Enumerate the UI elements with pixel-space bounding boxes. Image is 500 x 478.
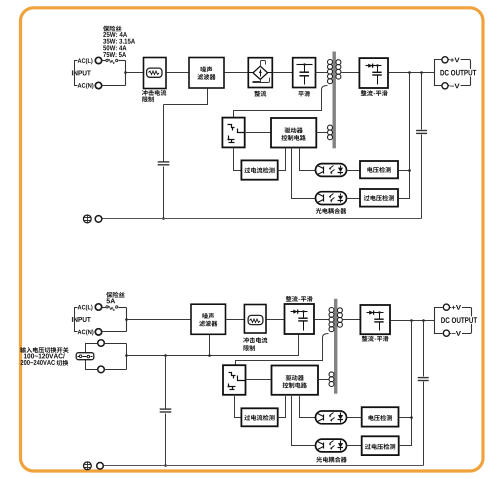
node output branch 1 (bottom) xyxy=(410,319,413,322)
protective earth symbol (bottom) xyxy=(84,462,92,470)
transformer T2 feedback winding (bottom) xyxy=(329,372,334,377)
voltage selector bracket xyxy=(86,344,98,370)
wire overcurrent detector to driver (bottom) xyxy=(278,395,286,418)
overvoltage detector box (bottom) xyxy=(362,436,399,455)
label 整流 (top) xyxy=(254,91,260,97)
noise filter box (top) xyxy=(189,58,224,89)
node detector junction (bottom) xyxy=(410,416,413,419)
terminal +V (top) xyxy=(442,57,448,63)
label +V (top) xyxy=(450,57,461,63)
wire optocoupler PC4 to overvoltage detector (bottom) xyxy=(347,445,362,447)
wire detector feedback vertical (bottom) xyxy=(399,321,412,446)
voltage selector switch terminals (bottom) xyxy=(98,340,105,347)
wire driver to optocoupler PC4 (bottom) xyxy=(292,395,316,446)
node input junction (bottom) xyxy=(125,318,128,321)
label DC OUTPUT (bottom) xyxy=(440,316,478,324)
node selector junction xyxy=(125,354,128,357)
label 输入电压切换开关 100~120VAC/200~240VAC切换 xyxy=(20,347,26,353)
node input junction (top) xyxy=(124,71,127,74)
rectifier-smoothing box (top) xyxy=(359,58,388,88)
wire rectifier-smoothing to DC output (top) xyxy=(389,72,435,74)
wire input junction vertical (top) xyxy=(125,61,127,86)
driver control circuit box (bottom) xyxy=(272,366,319,395)
label 整流·平滑 (top) xyxy=(361,90,367,96)
voltage selector slide switch symbol xyxy=(76,353,94,360)
label 电压检测 (bottom) xyxy=(368,415,373,421)
wire optocoupler PC1 to voltage detector (top) xyxy=(347,170,361,172)
wire transformer secondary to rectifier-smoothing (top) xyxy=(341,72,360,74)
driver control circuit box (top) xyxy=(271,118,316,148)
wire switch box to overcurrent detector (top) xyxy=(234,148,242,171)
label 冲击电流限制 (bottom) xyxy=(243,337,249,343)
wire junction to noise filter (bottom) xyxy=(127,319,192,321)
ground terminal (top) xyxy=(95,216,102,223)
label -V (top) xyxy=(450,83,461,89)
label AC(N) (top) xyxy=(78,83,82,87)
label -V (bottom) xyxy=(451,330,462,336)
optocoupler PC4 (bottom) xyxy=(316,439,347,452)
noise filter box (bottom) xyxy=(191,304,226,334)
wire noise filter tap to capacitor C2 (top) xyxy=(164,89,208,105)
label DC OUTPUT (top) xyxy=(439,69,477,77)
label 过电流检测 (bottom) xyxy=(244,415,250,421)
wire rectifier-smoothing 1 to transformer primary (bottom) xyxy=(315,319,330,321)
smoothing box (top) xyxy=(293,58,316,88)
wire optocoupler PC3 to voltage detector (bottom) xyxy=(347,417,362,419)
wire inrush limiter to rectifier-smoothing 1 (bottom) xyxy=(267,319,285,321)
optocoupler PC3 (bottom) xyxy=(316,411,347,424)
switching transistor symbols (bottom) xyxy=(229,373,236,376)
optocoupler PC1 (top) xyxy=(316,164,347,177)
wire inrush limiter to noise filter (top) xyxy=(167,72,190,74)
input bracket (top) xyxy=(75,61,78,86)
label INPUT (top) xyxy=(71,70,74,75)
transformer T1 core (top) xyxy=(333,52,336,149)
label 过电压检测 (top) xyxy=(364,195,370,201)
wire voltage detector to feedback vertical (top) xyxy=(399,170,410,172)
terminal +V (bottom) xyxy=(443,304,449,310)
node capacitor-bus junction (bottom) xyxy=(164,464,167,467)
wire switch box to overcurrent detector (bottom) xyxy=(235,395,242,418)
wire optocoupler PC2 to overvoltage detector (top) xyxy=(347,198,361,200)
inrush current limiter box (bottom) xyxy=(244,305,266,334)
wire driver to optocoupler PC1 (top) xyxy=(300,148,316,171)
wire overcurrent detector to driver (top) xyxy=(278,148,286,171)
wire output return with capacitor C3 (top) xyxy=(421,73,423,219)
label 过电流检测 (top) xyxy=(244,167,250,173)
wire driver to feedback winding (bottom) xyxy=(319,379,330,381)
wire detector feedback vertical (top) xyxy=(399,73,410,199)
rectifier-smoothing box 1 (bottom) xyxy=(285,304,315,334)
label 电压检测 (top) xyxy=(367,167,372,173)
terminal -V (bottom) xyxy=(443,330,449,336)
wire driver to feedback winding (top) xyxy=(317,132,328,134)
capacitor C2 to ground bus (top) xyxy=(163,105,165,219)
wire rectifier-smoothing 2 to DC output (bottom) xyxy=(391,320,435,322)
overcurrent detector box (bottom) xyxy=(241,408,277,426)
wire fuse to junction (top) xyxy=(119,60,126,62)
ground bus (top) xyxy=(102,218,422,220)
transformer T2 core (bottom) xyxy=(334,299,337,394)
capacitor C4 to ground bus (bottom) xyxy=(165,356,167,466)
wire selector mid-line to rectifier-smoothing 1 bottom xyxy=(127,335,299,356)
switching transistor box (bottom) xyxy=(223,365,246,395)
wire primary return to switching transistor (top) xyxy=(234,86,328,118)
wire driver to optocoupler PC2 (top) xyxy=(292,148,316,199)
wire voltage detector to feedback vertical (bottom) xyxy=(399,417,412,419)
overcurrent detector box (top) xyxy=(241,160,277,179)
transformer T2 primary winding (bottom) xyxy=(329,308,334,313)
ground bus (bottom) xyxy=(104,465,424,467)
wire output return with capacitor C5 (bottom) xyxy=(423,321,425,466)
node detector junction (top) xyxy=(408,169,411,172)
inrush current limiter box (top) xyxy=(144,58,167,89)
DC output terminal block (top) xyxy=(435,60,442,86)
label INPUT (bottom) xyxy=(71,317,74,322)
wire switching transistor to driver (top) xyxy=(245,132,272,134)
inrush limiter thermistor symbol (top) xyxy=(147,68,162,77)
DC output terminal block (bottom) xyxy=(435,308,443,334)
fuse F1 (top) xyxy=(102,60,106,62)
terminal AC(L) (top) xyxy=(95,57,101,63)
wire switching transistor to driver (bottom) xyxy=(246,379,272,381)
node output branch 2 (top) xyxy=(420,71,423,74)
wire smoothing to transformer primary (top) xyxy=(316,72,328,74)
wire transformer secondary to rectifier-smoothing 2 (bottom) xyxy=(343,319,361,321)
wire junction to inrush limiter (top) xyxy=(126,72,144,74)
label 整流·平滑 (bottom box 2) xyxy=(362,336,368,342)
node capacitor-bus junction (top) xyxy=(162,217,165,220)
switching transistor symbols (top) xyxy=(228,125,235,128)
wire fuse to junction (bottom) xyxy=(119,307,127,309)
node output branch 2 (bottom) xyxy=(422,319,425,322)
wire noise filter to inrush limiter (bottom) xyxy=(226,319,245,321)
wire input junction vertical (bottom) xyxy=(126,308,128,332)
voltage detector box (top) xyxy=(360,161,398,178)
label 噪声滤波器 (bottom) xyxy=(202,313,208,319)
input bracket (bottom) xyxy=(75,308,78,332)
rectifier-smoothing box 2 (bottom) xyxy=(360,305,390,334)
node selector line / noise filter tap xyxy=(208,354,211,357)
transformer T2 secondary winding (bottom) xyxy=(337,308,342,313)
smoothing capacitor C1 symbol (top) xyxy=(297,64,313,66)
wire AC(N) to junction (top) xyxy=(102,85,126,87)
terminal AC(N) (top) xyxy=(95,82,101,88)
terminal AC(L) (bottom) xyxy=(95,304,101,310)
label AC(N) (bottom) xyxy=(78,330,82,334)
wire driver to optocoupler PC3 (bottom) xyxy=(300,395,316,418)
terminal -V (top) xyxy=(442,83,448,89)
wire noise filter bottom tap (bottom) xyxy=(209,335,211,356)
voltage detector box (bottom) xyxy=(362,407,399,426)
ground terminal (bottom) xyxy=(97,463,104,470)
overvoltage detector box (top) xyxy=(360,189,398,207)
rectifier box (top) xyxy=(248,58,272,88)
label 驱动器控制电路 (bottom) xyxy=(286,375,292,381)
wire AC(N) to junction (bottom) xyxy=(102,331,127,333)
switching transistor box (top) xyxy=(222,118,244,148)
label 冲击电流限制 (top) xyxy=(142,90,148,96)
wire noise filter to rectifier (top) xyxy=(225,72,249,74)
node selector line / capacitor branch xyxy=(164,354,167,357)
wires selector terminals to junction (bottom) xyxy=(105,344,127,370)
label 噪声滤波器 (top) xyxy=(201,67,207,73)
transformer T1 secondary winding (top) xyxy=(336,60,341,65)
label AC(L) (top) xyxy=(78,58,82,62)
bridge rectifier diamond symbol (top) xyxy=(253,66,268,79)
wire rectifier to smoothing (top) xyxy=(273,72,293,74)
transformer T1 primary winding (top) xyxy=(328,60,333,65)
fuse F2 (bottom) xyxy=(102,307,106,309)
terminal AC(N) (bottom) xyxy=(95,329,101,335)
label AC(L) (bottom) xyxy=(78,305,82,309)
fuse rating label (top): 保险丝 25W:4A 35W:3.15A 50W:4A 75W:5A xyxy=(103,26,109,32)
label 光电耦合器 (top) xyxy=(316,208,322,214)
label 驱动器控制电路 (top) xyxy=(284,128,290,134)
node output branch 1 (top) xyxy=(408,71,411,74)
fuse rating label (bottom): 保险丝 5A xyxy=(106,292,112,298)
label +V (bottom) xyxy=(451,304,462,310)
protective earth symbol (top) xyxy=(83,215,91,223)
label 整流·平滑 (bottom box 1) xyxy=(286,296,292,302)
inrush limiter thermistor symbol (bottom) xyxy=(248,315,263,324)
wire primary return to switching transistor (bottom) xyxy=(236,334,329,366)
label 平滑 (top) xyxy=(298,91,304,96)
label 光电耦合器 (bottom) xyxy=(316,457,322,463)
optocoupler PC2 (top) xyxy=(316,192,347,205)
label 过电压检测 (bottom) xyxy=(365,444,371,450)
transformer T1 feedback winding (top) xyxy=(328,125,333,130)
